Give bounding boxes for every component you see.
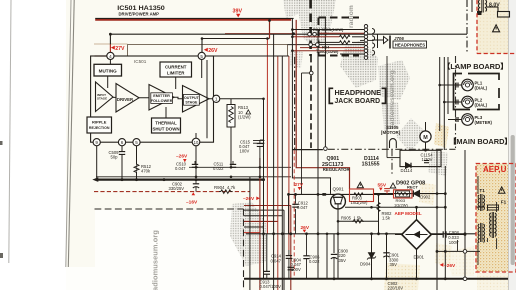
wire pin5 into IC xyxy=(201,59,203,78)
amp output stage triangle xyxy=(183,86,210,113)
wire faint rail y44 xyxy=(94,43,128,45)
wire red dashed AEP rail y191.5 xyxy=(94,191,250,193)
transformer T1 choke lower xyxy=(478,223,484,242)
label C912 0.047 xyxy=(297,201,308,211)
wire vertical x317.3 xyxy=(317,34,319,279)
wire AEP box vertical feed xyxy=(476,206,484,208)
amp emitter follower triangle xyxy=(149,85,174,111)
svg-text:1/30V: 1/30V xyxy=(422,157,433,162)
svg-text:1: 1 xyxy=(215,97,218,102)
left edge speck 2 xyxy=(0,253,3,258)
capacitor C906 xyxy=(303,234,309,279)
svg-text:1Ω(2W): 1Ω(2W) xyxy=(394,203,409,208)
svg-text:R904 4.7k: R904 4.7k xyxy=(214,185,236,190)
label R64 330 1/2W bottom xyxy=(317,44,340,54)
svg-text:100V: 100V xyxy=(449,240,459,245)
svg-text:D902: D902 xyxy=(420,195,431,200)
wire long vertical x264.5 from pin1 line xyxy=(263,99,265,279)
svg-text:0.022: 0.022 xyxy=(309,259,320,264)
label -26V red near C510 xyxy=(176,154,188,163)
svg-text:D1114: D1114 xyxy=(401,168,413,173)
label 27V red with arrow xyxy=(111,46,125,52)
label C1154 1/30V xyxy=(421,153,434,163)
svg-text:HEADPHONES: HEADPHONES xyxy=(395,42,425,47)
wire feedback vertical inside IC xyxy=(206,60,208,138)
wire lamp stub PL2 xyxy=(444,101,462,103)
svg-text:FOLLOWER: FOLLOWER xyxy=(151,99,173,103)
resistor R64a zigzag xyxy=(340,35,350,38)
svg-text:100V: 100V xyxy=(291,267,301,272)
wire vertical x445.3 xyxy=(444,166,446,279)
svg-text:1S1555: 1S1555 xyxy=(362,162,380,168)
wire thick ground bus y180 xyxy=(96,179,265,181)
transformer small block xyxy=(477,11,482,15)
svg-text:J706: J706 xyxy=(394,36,404,41)
wire left border feed to IC top xyxy=(95,55,107,57)
svg-text:9: 9 xyxy=(95,140,98,145)
current limiter block xyxy=(160,62,192,77)
wire headphone feed maroon y33.2 xyxy=(319,32,365,34)
svg-text:–26V: –26V xyxy=(444,263,456,269)
switch S1105 symbol xyxy=(390,139,397,148)
svg-text:CURRENT: CURRENT xyxy=(165,64,187,69)
svg-text:0.047: 0.047 xyxy=(297,205,308,210)
fuse F1 xyxy=(488,205,499,210)
watermark texture stroke bottom-middle xyxy=(230,202,268,266)
wire pin1 to R513 and x264.5 xyxy=(220,98,265,100)
capacitor C914 xyxy=(286,250,292,279)
svg-text:10Ω(2W): 10Ω(2W) xyxy=(351,200,368,205)
capacitor C912 xyxy=(292,194,298,233)
label C902 220/16V bottom xyxy=(388,281,404,290)
label 26V red xyxy=(301,225,310,233)
pin 10 xyxy=(192,138,200,146)
capacitor C511 xyxy=(230,161,236,167)
watermark texture patch near main board xyxy=(428,150,448,176)
wire T1 links xyxy=(478,176,497,265)
cream zone top-right power box xyxy=(477,0,516,54)
wire bridge top vertical xyxy=(416,207,418,220)
muting block xyxy=(94,64,122,76)
wire motor riser xyxy=(425,142,427,150)
resistor R904 zigzag xyxy=(219,190,233,194)
wire red dashed vertical x259.8 xyxy=(259,158,261,290)
page edge line far left xyxy=(9,0,11,263)
capacitor C905 polarized xyxy=(331,254,337,278)
capacitor C904 xyxy=(288,267,294,270)
svg-text:REGULATOR: REGULATOR xyxy=(323,167,351,172)
svg-text:R905 1.5k: R905 1.5k xyxy=(341,216,362,221)
svg-text:10: 10 xyxy=(194,140,199,145)
wire lamp stub PL1 xyxy=(440,84,462,86)
svg-text:STAGE: STAGE xyxy=(97,96,107,100)
watermark texture patch top-middle xyxy=(283,0,301,18)
red dashed box top-right xyxy=(477,0,516,54)
svg-text:–16V: –16V xyxy=(186,200,198,206)
svg-text:D901: D901 xyxy=(414,254,425,259)
bridge rectifier D901 xyxy=(402,220,432,250)
svg-text:27V: 27V xyxy=(115,46,125,52)
svg-text:–26V: –26V xyxy=(243,196,255,202)
label C905 220 35V xyxy=(338,248,349,262)
wire staircase h3 maroon xyxy=(244,220,278,222)
wire headphone feed y50.4 xyxy=(292,50,364,52)
wire bridge bottom vertical xyxy=(416,249,418,279)
warning triangle AEP box xyxy=(498,187,505,194)
label R513 10 1/2W xyxy=(238,105,251,120)
wire amp chain links xyxy=(113,97,213,99)
wire top-right vertical x472 xyxy=(471,0,473,12)
svg-text:35V: 35V xyxy=(339,258,347,263)
svg-text:470k: 470k xyxy=(141,169,151,174)
right gray scrollbar xyxy=(511,135,515,265)
wire Q901 emitter down xyxy=(337,209,339,279)
amp input stage triangle xyxy=(96,82,114,112)
wire D902 line y193.6 xyxy=(374,193,446,195)
wire headphone feed y54 xyxy=(340,53,364,55)
svg-text:IC501: IC501 xyxy=(134,59,147,64)
wire 27V rail y194.4 xyxy=(288,193,394,195)
wire staircase h1 maroon xyxy=(244,205,291,207)
resistor R902 zigzag vertical xyxy=(377,203,380,212)
svg-text:JACK BOARD: JACK BOARD xyxy=(335,96,381,105)
wire red branch y33.6 xyxy=(225,33,294,35)
tan patch near D902 xyxy=(419,182,436,205)
wire board boundary dash-dot x294.6 xyxy=(294,57,296,149)
watermark texture patch letter O top xyxy=(297,0,336,52)
wire pin5 horizontal to maroon drop xyxy=(202,38,270,40)
lamp PL1 xyxy=(462,79,474,91)
svg-text:(1/2W): (1/2W) xyxy=(238,115,251,120)
lamp PL3 xyxy=(462,114,474,126)
wire R64a lead y36.8 xyxy=(292,36,339,38)
wire motor top stub xyxy=(425,122,427,131)
wire thin rail y176.5 xyxy=(96,176,291,178)
warning triangle top-right xyxy=(493,25,500,32)
wire vertical x325.4 xyxy=(324,18,326,149)
capacitor C902 electrolytic xyxy=(193,180,199,192)
svg-text:STAGE: STAGE xyxy=(185,100,198,104)
headphone jack dashed box xyxy=(319,18,360,56)
svg-text:AEP,U: AEP,U xyxy=(483,165,507,174)
wire vertical x304.3 xyxy=(301,73,303,194)
top-right connector rect xyxy=(498,12,510,18)
label PL3 METER xyxy=(475,115,493,125)
wire lamp stub PL3 xyxy=(448,119,462,121)
svg-text:(DIAL): (DIAL) xyxy=(475,85,488,90)
wire muting drop xyxy=(107,76,109,88)
wire vertical x437 right of bridge xyxy=(436,150,438,290)
wire top-right dash-dot x467 xyxy=(466,0,468,54)
wire thermal riser xyxy=(165,107,167,118)
wire R905 row y221.3 xyxy=(338,220,379,222)
svg-text:LIMITER: LIMITER xyxy=(167,71,185,76)
lamp board outline xyxy=(454,74,500,110)
wire vertical drop x286.5 xyxy=(281,56,283,290)
label Q901 2SC1173 REGULATOR xyxy=(322,156,351,172)
tan patch bottom right of bridge xyxy=(384,263,420,290)
label HEADPHONES boxed xyxy=(393,41,427,48)
wire vertical drop x258.5 xyxy=(249,177,251,290)
wire C905 vertical xyxy=(333,234,335,253)
wire dash-dot boundary x455.5 xyxy=(455,56,457,148)
svg-text:REJECTION: REJECTION xyxy=(89,126,110,130)
wire jack return vertical xyxy=(386,56,388,158)
capacitor C913 xyxy=(264,271,270,278)
capacitor C509 xyxy=(119,152,125,155)
ripple rejection block xyxy=(87,117,112,133)
label C509 50p xyxy=(109,150,120,160)
capacitor C911 red AEP xyxy=(384,189,390,194)
svg-text:35V: 35V xyxy=(390,262,398,267)
red dashed box AEP xyxy=(476,164,516,273)
warning triangle R903 xyxy=(357,182,363,188)
wire lamp feed vertical 1 xyxy=(439,57,441,131)
jack contact column 2 xyxy=(372,29,378,56)
svg-text:EMITTER: EMITTER xyxy=(153,94,170,98)
svg-text:T1: T1 xyxy=(479,188,485,193)
wire main black bus y34 xyxy=(110,33,467,35)
left edge speck 1 xyxy=(0,141,3,145)
capacitor C908 xyxy=(443,231,446,237)
svg-text:SHUT DOWN: SHUT DOWN xyxy=(152,127,179,132)
transistor Q901 xyxy=(331,194,346,209)
wire dashed cutoff boundary horizontal xyxy=(95,208,244,210)
wire 39V supply pair bus dark red xyxy=(95,19,291,21)
transformer T1 main winding xyxy=(490,212,497,238)
transformer top-right coil b xyxy=(486,0,487,11)
watermark texture band right of org column xyxy=(378,60,410,100)
svg-text:0.047: 0.047 xyxy=(271,258,282,263)
wire maroon drop from pair bus xyxy=(269,21,271,39)
svg-text:220/16V: 220/16V xyxy=(388,286,404,290)
label D1114 1S1555 xyxy=(362,156,380,168)
wire staircase h4 black xyxy=(244,226,264,228)
tan patch right of bridge xyxy=(435,243,452,266)
tan zone right AEP box xyxy=(476,164,516,273)
wire pin5b drop xyxy=(136,146,138,180)
wire jack link to plug xyxy=(372,39,383,41)
wire pin5 riser xyxy=(201,39,203,54)
svg-text:100V: 100V xyxy=(240,149,250,154)
svg-text:RECT: RECT xyxy=(407,185,418,190)
wire -26V rail y167.3 xyxy=(189,166,291,168)
svg-text:D904: D904 xyxy=(360,262,371,267)
svg-text:Q901: Q901 xyxy=(333,186,345,191)
resistor R903 red box AEP xyxy=(350,189,374,202)
label R903 10ohm 2W xyxy=(351,196,368,206)
wire transformer top coil lead xyxy=(487,6,498,8)
svg-text:DRIVE/POWER AMP: DRIVE/POWER AMP xyxy=(119,12,160,17)
watermark texture small patch below jack xyxy=(353,55,377,66)
wire staircase h5 red xyxy=(244,232,260,234)
svg-text:(METER): (METER) xyxy=(475,120,493,125)
wire vertical x266.5 to C913 xyxy=(266,234,268,271)
capacitor C903 electrolytic xyxy=(383,253,389,257)
label -26V red bottom xyxy=(440,263,456,269)
svg-text:26V: 26V xyxy=(208,48,218,54)
svg-text:5: 5 xyxy=(200,54,203,59)
lamp connector PL3 xyxy=(456,117,458,122)
wire vertical x327 xyxy=(326,234,328,279)
capacitor C1154 xyxy=(424,161,429,163)
svg-text:8.0V: 8.0V xyxy=(489,3,500,9)
pin 9 xyxy=(93,139,100,146)
lamp PL2 xyxy=(462,96,474,108)
tan patch left of lamp board xyxy=(434,123,449,148)
svg-text:M: M xyxy=(423,135,428,141)
wire transformer lead drop xyxy=(497,7,499,12)
wire R64b lead y42.4 xyxy=(319,41,340,43)
label C515 0.047 100V xyxy=(239,140,251,154)
wire pin6 drop xyxy=(121,146,123,180)
label C902 330/25V xyxy=(169,182,185,192)
svg-text:50p: 50p xyxy=(111,155,119,160)
svg-text:330/25V: 330/25V xyxy=(169,186,185,191)
wire zener D904 vertical xyxy=(371,234,373,279)
label PL2 DIAL xyxy=(475,98,488,108)
svg-text:AEP MODEL: AEP MODEL xyxy=(395,211,422,216)
wire lamp feed vertical 3 xyxy=(447,57,449,114)
svg-text:【MAIN BOARD】: 【MAIN BOARD】 xyxy=(449,137,512,146)
label 27V red regulator xyxy=(295,182,304,190)
wire short pair links xyxy=(253,140,265,142)
junction open circles on y44 line xyxy=(308,32,467,280)
transformer top-right core xyxy=(482,0,484,13)
wire dash-dot vertical x392 xyxy=(391,149,393,176)
wire black rail y44 right part with junctions xyxy=(288,44,365,46)
wire 39V supply pair bus black top xyxy=(95,17,293,19)
svg-text:【LAMP BOARD】: 【LAMP BOARD】 xyxy=(443,62,508,71)
label 55V red xyxy=(378,183,387,191)
svg-text:5: 5 xyxy=(135,140,138,145)
wire motor loop rect xyxy=(400,150,441,166)
wire thick dashed boundary x310.6 top xyxy=(309,0,312,56)
pin 4 xyxy=(107,52,114,59)
pin 5 bottom xyxy=(133,139,140,146)
jack contact column 1 xyxy=(364,25,367,60)
wire rail y207.3 xyxy=(345,206,445,208)
lamp connector PL1 xyxy=(456,83,458,88)
op-amp IC501 outline xyxy=(91,56,214,142)
wire vertical x465 xyxy=(464,150,466,279)
diode D902 xyxy=(413,190,419,196)
capacitor C510 xyxy=(192,161,198,167)
label R512 470k xyxy=(141,164,152,174)
pin 1 xyxy=(213,95,220,102)
wire C908 vertical xyxy=(440,220,442,245)
watermark texture patch left mid xyxy=(290,50,303,68)
label -16V red with up arrow xyxy=(186,192,198,205)
zener diode D904 xyxy=(367,253,376,260)
label 26V red with arrow top xyxy=(204,48,218,54)
svg-text:1.5k: 1.5k xyxy=(382,216,391,221)
label C511 0.022 xyxy=(213,162,224,172)
wire bridge left stub xyxy=(395,234,402,236)
svg-text:OUTPUT: OUTPUT xyxy=(184,96,200,100)
motor M905 xyxy=(420,131,431,142)
label S1105 MOTOR xyxy=(381,125,401,135)
wire staircase h2 black xyxy=(244,209,284,211)
wire R64b out xyxy=(352,41,364,43)
svg-text:DRIVER: DRIVER xyxy=(117,97,134,102)
pin 5 top xyxy=(198,52,205,59)
label C903 3300 35V xyxy=(389,253,400,267)
wire current limiter drop xyxy=(175,77,177,89)
svg-text:0.022: 0.022 xyxy=(213,166,224,171)
svg-text:(DIAL): (DIAL) xyxy=(475,102,488,107)
svg-text:RIPPLE: RIPPLE xyxy=(92,120,107,125)
watermark texture band near motor label xyxy=(382,102,400,132)
label C906 0.022 xyxy=(309,254,320,264)
pin 6 xyxy=(118,139,125,146)
svg-text:39V: 39V xyxy=(233,9,243,15)
label PL1 DIAL xyxy=(475,81,488,91)
wire bottom ground bus y278.8 xyxy=(244,278,508,280)
wire long vertical x291 maroon from pair bus xyxy=(296,20,349,189)
wire dash-dot boundary x311.3 xyxy=(310,56,312,148)
schematic sheet left border (double line) xyxy=(66,0,71,267)
thermal shut down block xyxy=(152,118,181,133)
label R903 1ohm 2W b xyxy=(394,198,409,207)
svg-text:MUTING: MUTING xyxy=(99,69,118,74)
svg-text:6: 6 xyxy=(121,140,124,145)
svg-text:330Ω(1/2W): 330Ω(1/2W) xyxy=(317,49,340,54)
right page strip xyxy=(509,0,516,290)
svg-text:radiomuseum.org: radiomuseum.org xyxy=(389,70,396,128)
resistor R903b red box xyxy=(394,190,413,198)
wire dashed cutoff boundary vertical xyxy=(243,209,245,290)
watermark texture diamond near motor xyxy=(396,118,427,152)
diode D1114 xyxy=(406,163,412,169)
wire long vertical x285 maroon xyxy=(288,56,290,250)
watermark texture diagonal stroke xyxy=(340,40,378,88)
label 39V red xyxy=(233,9,243,18)
wire pin4 to muting xyxy=(109,60,111,65)
transformer top-right coil a xyxy=(478,0,479,11)
label C510 0.047 xyxy=(175,162,187,172)
wire R64a out xyxy=(352,36,364,38)
svg-text:adiomuseum.org: adiomuseum.org xyxy=(151,230,160,290)
svg-text:–26V: –26V xyxy=(176,154,188,160)
wire pin9 drop xyxy=(96,146,98,180)
amp driver triangle xyxy=(116,84,139,113)
wire vertical drop x277 maroon xyxy=(273,34,275,290)
svg-text:4: 4 xyxy=(109,54,112,59)
wire bridge right stub xyxy=(431,234,442,236)
resistor R64b zigzag xyxy=(340,41,350,44)
wire pin4 drop from bus xyxy=(109,34,111,44)
svg-text:THERMAL: THERMAL xyxy=(155,120,177,125)
label C908 0.033 100V xyxy=(448,230,459,245)
svg-text:0.047: 0.047 xyxy=(175,166,186,171)
transformer T1 choke upper xyxy=(478,194,484,211)
wire pin10 riser into IC xyxy=(195,133,197,138)
resistor R513 boxed xyxy=(227,99,235,168)
wire dash-dot boundary under C1154 xyxy=(292,149,323,151)
resistor R905 zigzag xyxy=(352,220,364,223)
wire C903 electrolytic vertical xyxy=(386,234,388,279)
headphone plug symbol xyxy=(384,37,389,44)
label R902 1.5k xyxy=(382,211,393,221)
wire pin10 drop xyxy=(195,146,197,177)
wire 26V into AEP box y251.4 xyxy=(437,250,480,252)
wire R902 vertical x378.5 xyxy=(378,194,380,233)
label C914 0.047 xyxy=(271,254,282,264)
lamp connector PL2 xyxy=(456,100,458,105)
svg-text:F1: F1 xyxy=(501,200,507,205)
warning triangle D902 xyxy=(390,183,396,188)
